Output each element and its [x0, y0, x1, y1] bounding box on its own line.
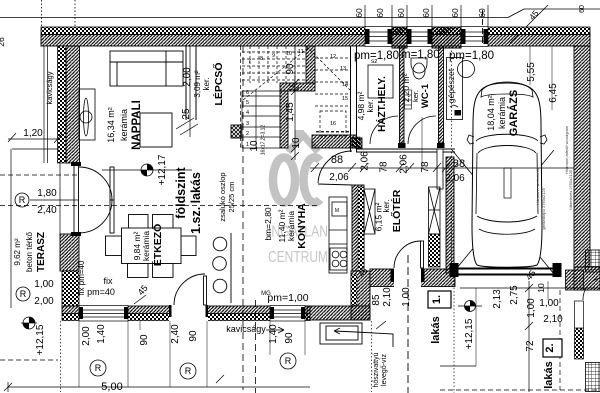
svg-text:sz: sz — [371, 58, 378, 65]
svg-text:kerámia: kerámia — [119, 109, 129, 141]
svg-text:ker.: ker. — [202, 78, 211, 91]
svg-text:14: 14 — [342, 82, 348, 88]
svg-text:Hörmann átfedő woodgrain: Hörmann átfedő woodgrain — [564, 126, 569, 174]
svg-text:ELŐTÉR: ELŐTÉR — [390, 189, 403, 232]
svg-text:5: 5 — [246, 100, 249, 106]
svg-text:2,40: 2,40 — [170, 324, 181, 344]
svg-text:kavicságy: kavicságy — [226, 324, 266, 334]
svg-text:Nikkelezés 2750x2125: Nikkelezés 2750x2125 — [568, 169, 573, 210]
svg-text:6,15 m²: 6,15 m² — [374, 202, 384, 231]
svg-text:2,06: 2,06 — [329, 172, 349, 183]
svg-text:1,45: 1,45 — [285, 102, 296, 122]
svg-text:72: 72 — [525, 340, 536, 352]
svg-text:pm=1,80: pm=1,80 — [449, 50, 494, 62]
svg-text:pm=40: pm=40 — [87, 287, 115, 297]
svg-text:25: 25 — [181, 108, 192, 120]
svg-text:9,84 m²: 9,84 m² — [132, 231, 142, 260]
svg-text:3,09 m²: 3,09 m² — [193, 70, 202, 97]
svg-text:2,00: 2,00 — [81, 326, 92, 346]
svg-text:90: 90 — [188, 330, 199, 342]
svg-text:9,62 m²: 9,62 m² — [13, 238, 22, 265]
svg-text:1.: 1. — [431, 295, 443, 304]
svg-text:kerámia: kerámia — [497, 97, 507, 129]
svg-text:NAPPALI: NAPPALI — [131, 100, 143, 150]
svg-text:60: 60 — [354, 8, 364, 18]
svg-text:8: 8 — [260, 56, 263, 62]
svg-text:10: 10 — [287, 82, 297, 92]
svg-text:10: 10 — [249, 140, 260, 152]
svg-text:90: 90 — [285, 63, 296, 75]
svg-text:1,00: 1,00 — [526, 298, 537, 318]
svg-text:18,04 m²: 18,04 m² — [486, 95, 496, 131]
svg-text:földszint: földszint — [174, 166, 188, 218]
svg-text:1,00: 1,00 — [401, 287, 412, 307]
svg-text:fix pm=40: fix pm=40 — [77, 260, 86, 295]
svg-text:5,00: 5,00 — [101, 381, 122, 393]
svg-text:1,40: 1,40 — [96, 324, 107, 344]
svg-text:12: 12 — [330, 54, 336, 60]
svg-text:1,40: 1,40 — [268, 324, 279, 344]
svg-text:13: 13 — [340, 66, 346, 72]
svg-text:LÉPCSŐ: LÉPCSŐ — [212, 62, 225, 105]
svg-text:16,34 m²: 16,34 m² — [106, 107, 116, 143]
svg-text:KONYHA: KONYHA — [296, 203, 308, 249]
svg-text:78: 78 — [420, 161, 431, 173]
svg-text:Hörmann szekcionált: Hörmann szekcionált — [535, 166, 540, 204]
svg-text:garázskapu 2750x2125: garázskapu 2750x2125 — [541, 187, 546, 229]
svg-text:60: 60 — [477, 8, 487, 18]
svg-text:16x17,2=3,12: 16x17,2=3,12 — [261, 125, 267, 156]
svg-text:9: 9 — [272, 53, 275, 59]
svg-text:2: 2 — [246, 131, 249, 137]
svg-text:R: R — [185, 366, 192, 376]
svg-text:lakás: lakás — [430, 316, 442, 344]
svg-text:60: 60 — [396, 8, 406, 18]
svg-text:11: 11 — [298, 49, 304, 55]
svg-text:ÉTKEZŐ: ÉTKEZŐ — [151, 224, 164, 267]
svg-text:TERASZ: TERASZ — [36, 232, 47, 272]
svg-text:5,55: 5,55 — [526, 62, 537, 82]
svg-text:2,75: 2,75 — [509, 285, 520, 305]
svg-text:1,00: 1,00 — [34, 279, 54, 290]
svg-text:85: 85 — [371, 294, 382, 306]
svg-text:+12,15: +12,15 — [464, 318, 475, 349]
svg-text:2,20 m²: 2,20 m² — [401, 73, 411, 102]
svg-text:2.: 2. — [544, 343, 556, 352]
svg-text:25/25 cm: 25/25 cm — [227, 182, 236, 213]
svg-text:1,20: 1,20 — [23, 128, 43, 139]
svg-text:lakás: lakás — [543, 361, 555, 389]
svg-text:bm=2,80: bm=2,80 — [263, 207, 273, 241]
svg-text:4,98 m²: 4,98 m² — [356, 91, 366, 120]
svg-text:6,45: 6,45 — [548, 83, 559, 103]
svg-text:15: 15 — [342, 96, 348, 102]
svg-text:60: 60 — [450, 8, 460, 18]
svg-text:2,10: 2,10 — [382, 287, 393, 307]
svg-text:gépészet: gépészet — [446, 68, 456, 103]
svg-text:WC-1: WC-1 — [420, 83, 431, 108]
svg-text:R: R — [95, 363, 102, 373]
svg-text:4: 4 — [246, 110, 249, 116]
svg-text:2,13: 2,13 — [492, 289, 503, 309]
svg-text:ker.: ker. — [411, 90, 420, 102]
svg-text:1,00: 1,00 — [539, 298, 559, 309]
svg-text:CENTRUM: CENTRUM — [268, 249, 328, 266]
svg-text:10: 10 — [291, 137, 302, 149]
svg-text:1,80: 1,80 — [37, 188, 57, 199]
svg-text:pm=1,00: pm=1,00 — [267, 292, 308, 304]
svg-text:+12,17: +12,17 — [157, 154, 168, 185]
svg-text:88: 88 — [331, 154, 343, 166]
svg-text:90: 90 — [139, 334, 150, 346]
svg-text:m=1,80: m=1,80 — [401, 49, 440, 61]
svg-text:2,06: 2,06 — [445, 173, 465, 184]
svg-text:60: 60 — [375, 8, 385, 18]
svg-text:kerámia: kerámia — [141, 231, 151, 262]
svg-text:hőszivattyú: hőszivattyú — [373, 352, 380, 387]
svg-text:kavicságy: kavicságy — [45, 71, 54, 104]
svg-text:3: 3 — [246, 121, 249, 127]
svg-text:2,10: 2,10 — [543, 314, 563, 325]
svg-text:88: 88 — [453, 158, 465, 170]
svg-text:78: 78 — [379, 161, 390, 173]
svg-text:GARÁZS: GARÁZS — [507, 90, 520, 136]
svg-text:1.sz. lakás: 1.sz. lakás — [189, 172, 203, 234]
svg-text:ker.: ker. — [366, 100, 375, 113]
svg-text:M: M — [335, 208, 339, 214]
svg-text:60: 60 — [421, 8, 431, 18]
svg-text:2,06: 2,06 — [399, 154, 410, 174]
svg-text:HÁZT.HELY.: HÁZT.HELY. — [375, 76, 388, 132]
svg-text:fix: fix — [104, 276, 114, 286]
svg-text:10: 10 — [286, 51, 292, 57]
svg-text:beton térkő: beton térkő — [25, 231, 34, 272]
svg-text:+12,15: +12,15 — [35, 324, 46, 355]
svg-text:6: 6 — [246, 90, 249, 96]
svg-text:7: 7 — [248, 59, 251, 65]
svg-text:levegő-víz: levegő-víz — [381, 354, 388, 386]
svg-text:90: 90 — [284, 332, 295, 344]
svg-text:R: R — [20, 289, 27, 299]
svg-text:2,40: 2,40 — [37, 205, 57, 216]
svg-text:R: R — [19, 195, 26, 205]
svg-text:2,00: 2,00 — [182, 67, 193, 87]
svg-text:2,00: 2,00 — [34, 296, 54, 307]
svg-text:26: 26 — [0, 37, 6, 47]
svg-text:60: 60 — [579, 5, 586, 13]
svg-text:R: R — [285, 356, 292, 366]
svg-text:2,06: 2,06 — [360, 151, 371, 171]
svg-text:kerámia: kerámia — [286, 211, 296, 242]
svg-text:10: 10 — [536, 283, 546, 293]
svg-text:11,40 m²: 11,40 m² — [277, 209, 287, 242]
svg-text:zsalukó oszlop: zsalukó oszlop — [218, 172, 227, 221]
svg-text:16: 16 — [330, 121, 336, 127]
